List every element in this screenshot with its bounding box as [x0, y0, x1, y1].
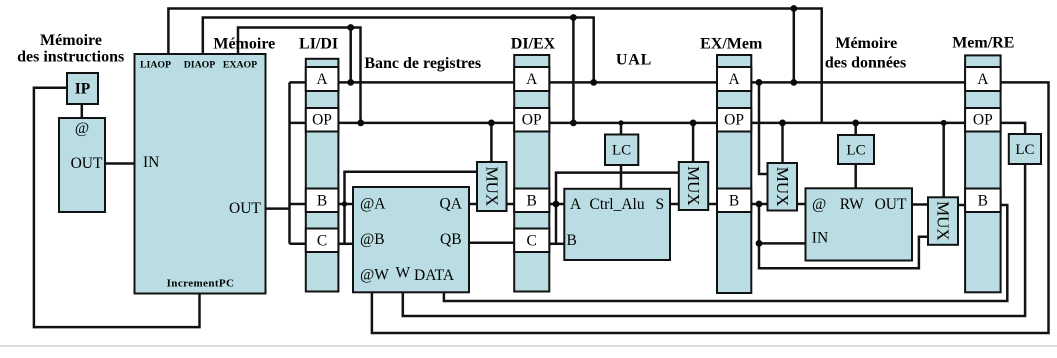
svg-text:LC: LC — [612, 143, 631, 159]
node OP row wire2 — [570, 120, 577, 127]
wire DIAOP branch to OP row — [572, 18, 575, 123]
wire LC1 output to UAL Ctrl_Alu — [620, 165, 623, 189]
node A row at EX/Mem — [756, 79, 763, 86]
wire EX/Mem B to MUX3 — [751, 203, 767, 206]
svg-text:IN: IN — [812, 230, 828, 247]
svg-text:OUT: OUT — [71, 155, 103, 172]
pipeline register EX/Mem — [717, 55, 751, 293]
logic LC2 — [838, 135, 874, 164]
svg-text:OUT: OUT — [875, 196, 907, 213]
svg-text:C: C — [527, 232, 537, 249]
wire MUX3 select from OP row — [781, 123, 784, 163]
svg-text:S: S — [656, 196, 665, 213]
wire branch to memory IN — [759, 242, 806, 245]
svg-text:@: @ — [75, 120, 89, 137]
svg-text:QA: QA — [440, 196, 463, 213]
svg-text:B: B — [317, 192, 327, 209]
wire LIAOP branch to A row — [793, 9, 796, 83]
wire MUX4 to Mem/RE B — [958, 204, 965, 207]
wire EX/Mem B down under memory to MUX4 — [759, 204, 928, 268]
node memory IN branch — [756, 240, 763, 247]
svg-text:DATA: DATA — [414, 267, 455, 284]
svg-text:LC: LC — [846, 143, 865, 159]
svg-text:LI/DI: LI/DI — [299, 36, 338, 53]
wire OP output Mem/RE to LC3 — [1001, 123, 1026, 134]
svg-text:EXAOP: EXAOP — [223, 60, 257, 71]
svg-text:A: A — [316, 71, 328, 88]
logic LC3 — [1009, 134, 1041, 164]
svg-text:Ctrl_Alu: Ctrl_Alu — [590, 196, 645, 213]
svg-text:MUX: MUX — [934, 201, 953, 241]
wire LC2 input from OP row — [854, 123, 857, 135]
svg-text:Mémoire: Mémoire — [40, 32, 102, 49]
svg-text:C: C — [317, 232, 327, 249]
data memory box — [806, 188, 913, 260]
svg-text:A: A — [728, 71, 740, 88]
wire QA to MUX1 — [469, 203, 477, 206]
mux MUX3 — [768, 163, 798, 211]
node OP row MUX2 — [690, 120, 697, 127]
wire A row LI/DI to DI/EX — [338, 81, 514, 84]
node A row at LI/DI — [347, 79, 354, 86]
wire MUX1 to DI/EX B — [507, 203, 515, 206]
node B bypass LI/DI — [342, 201, 347, 206]
node OP row LC1 — [618, 120, 623, 125]
svg-text:A: A — [977, 71, 989, 88]
svg-text:EX/Mem: EX/Mem — [700, 36, 763, 53]
svg-text:IN: IN — [143, 154, 159, 171]
svg-text:OP: OP — [724, 112, 744, 129]
register IP — [67, 73, 98, 104]
svg-text:IP: IP — [75, 81, 91, 98]
wire B bypass to MUX1 and to @B row — [345, 172, 478, 244]
faint page rule — [0, 345, 1057, 347]
node B at EX/Mem — [756, 201, 763, 208]
svg-text:RW: RW — [840, 196, 864, 213]
mux MUX2 — [679, 162, 708, 210]
wire EXAOP bus (top wire 3) — [238, 28, 361, 123]
wire OP row DI/EX to EX/Mem — [549, 122, 717, 125]
node OP row MUX4 — [941, 120, 947, 126]
node A row at Mem/RE — [790, 79, 797, 86]
svg-text:A: A — [570, 196, 582, 213]
svg-text:OUT: OUT — [229, 200, 261, 217]
svg-text:MUX: MUX — [482, 167, 501, 207]
node OP row wire3 — [357, 120, 364, 127]
svg-text:MUX: MUX — [773, 167, 792, 207]
svg-text:Mémoire: Mémoire — [213, 36, 275, 53]
wire instruction memory OUT to Memoire IN — [105, 162, 135, 165]
wire LIAOP bus (top wire 1) — [168, 9, 821, 123]
svg-text:DIAOP: DIAOP — [184, 60, 216, 71]
svg-text:@A: @A — [360, 196, 386, 213]
svg-text:B: B — [567, 232, 577, 249]
svg-text:OP: OP — [522, 112, 542, 129]
wire MUX3 to memory @ — [797, 203, 806, 206]
svg-text:W: W — [396, 265, 411, 282]
wire C of LI/DI to @B — [338, 243, 353, 246]
node LIAOP on wire1 — [790, 5, 797, 12]
node OP row LC2 — [852, 120, 859, 127]
wire MUX2 to EX/Mem B — [708, 203, 717, 206]
svg-text:des instructions: des instructions — [17, 49, 124, 66]
svg-text:LC: LC — [1015, 142, 1034, 158]
node B bypass DI/EX — [553, 201, 560, 208]
svg-text:LIAOP: LIAOP — [140, 60, 171, 71]
mux MUX1 — [477, 162, 507, 211]
node OP row MUX1 — [488, 120, 495, 127]
svg-text:@B: @B — [360, 231, 385, 248]
svg-text:Mem/RE: Mem/RE — [952, 35, 1014, 52]
mux MUX4 — [928, 197, 958, 245]
node EXAOP on wire3 — [347, 24, 354, 31]
svg-text:UAL: UAL — [616, 52, 652, 69]
wire DIAOP bus (top wire 2) — [203, 18, 594, 83]
svg-text:QB: QB — [440, 231, 462, 248]
wire OP row EX/Mem to Mem/RE — [751, 122, 965, 125]
wire QB to DI/EX C — [469, 242, 514, 245]
wire B of LI/DI to @A — [338, 203, 353, 206]
UAL box — [564, 189, 670, 260]
wire Memoire OUT distribution bus — [266, 82, 306, 243]
svg-text:IncrementPC: IncrementPC — [167, 278, 235, 290]
svg-text:DI/EX: DI/EX — [511, 36, 556, 53]
wire EXAOP branch to A row — [349, 28, 352, 83]
wire IP to @ — [81, 104, 84, 118]
wire A row DI/EX to EX/Mem — [549, 81, 717, 84]
wire DI/EX C to UAL B — [549, 243, 564, 246]
instruction memory box — [59, 118, 105, 212]
wire LC3 output to W of register bank — [403, 164, 1025, 316]
wire DI/EX B to UAL A — [549, 203, 564, 206]
wire DI/EX B bypass to MUX2 — [556, 173, 679, 244]
node DIAOP on wire2 — [570, 14, 577, 21]
svg-text:@W: @W — [360, 267, 389, 284]
wire LC2 output to memory RW — [854, 164, 857, 188]
svg-text:B: B — [729, 192, 739, 209]
wire memory OUT to MUX4 — [912, 203, 928, 206]
svg-text:A: A — [526, 71, 538, 88]
wire UAL S to MUX2 — [670, 203, 679, 206]
svg-text:OP: OP — [973, 112, 993, 129]
svg-text:OP: OP — [312, 112, 332, 129]
svg-text:des données: des données — [825, 54, 906, 71]
pipeline register Mem/RE — [965, 55, 1001, 292]
svg-text:MUX: MUX — [684, 166, 703, 206]
pipeline register LI/DI — [306, 59, 339, 292]
wire EX/Mem A to MUX3 — [759, 82, 768, 174]
svg-text:@: @ — [812, 196, 826, 213]
wire A row EX/Mem to Mem/RE — [751, 81, 965, 84]
pipeline register DI/EX — [514, 55, 549, 292]
wire IP feedback from IncrementPC — [34, 88, 200, 327]
wire Mem/RE B feedback to DATA — [444, 205, 1007, 301]
wire MUX4 select from OP row — [942, 123, 945, 197]
node OP row MUX3 — [779, 120, 786, 127]
wire LC1 input from OP row — [620, 123, 623, 135]
logic LC1 — [605, 135, 638, 166]
control box Memoire / IncrementPC — [135, 54, 266, 294]
svg-text:Mémoire: Mémoire — [835, 35, 897, 52]
node A row at DI/EX — [590, 79, 597, 86]
register bank box — [353, 187, 469, 292]
wire A output Mem/RE feedback to @W — [372, 82, 1049, 333]
wire MUX1 select from OP row — [490, 123, 493, 162]
wire MUX2 select from OP row — [692, 123, 695, 162]
svg-text:B: B — [527, 192, 537, 209]
svg-text:Banc de registres: Banc de registres — [364, 55, 481, 72]
wire OP row LI/DI to DI/EX — [338, 122, 514, 125]
svg-text:B: B — [978, 192, 988, 209]
